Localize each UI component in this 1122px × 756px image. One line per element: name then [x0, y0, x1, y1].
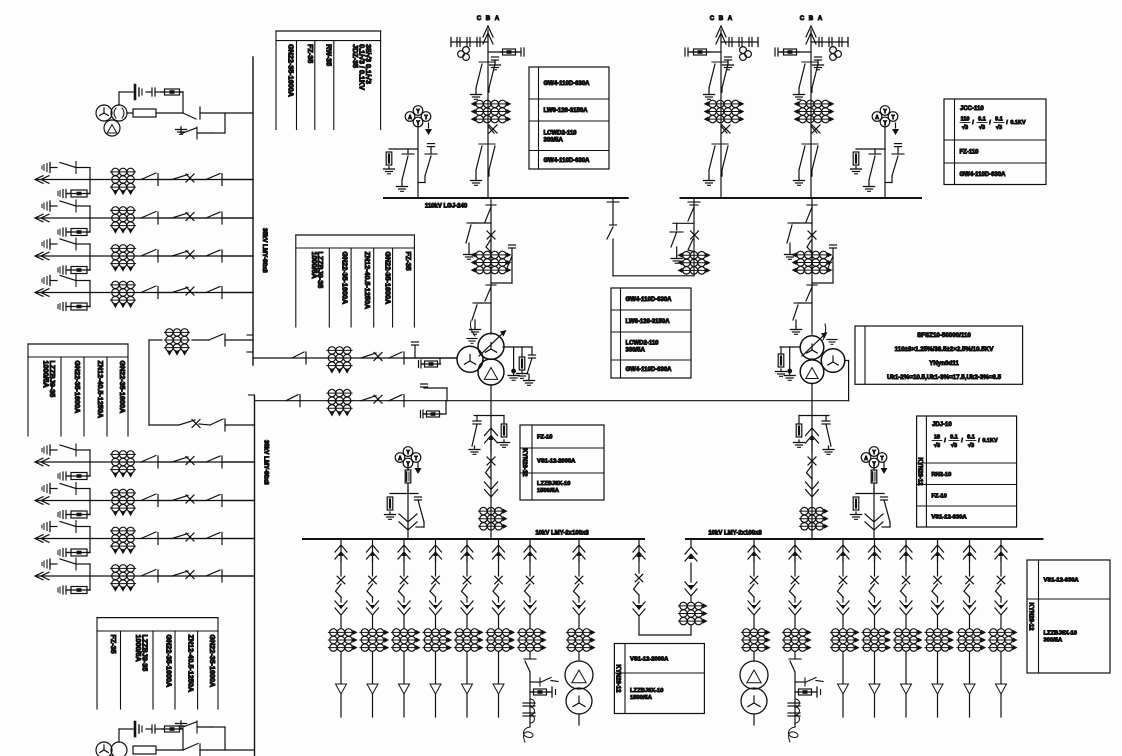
- earthing switch: [793, 305, 798, 320]
- svg-text:110kV LGJ-240: 110kV LGJ-240: [425, 204, 468, 210]
- table T3 35kV bay specs: [28, 343, 128, 345]
- svg-text:√3: √3: [934, 442, 940, 449]
- circuit breaker: [361, 396, 376, 401]
- open arrow termination: [462, 684, 473, 694]
- svg-text:JCC-110: JCC-110: [960, 106, 984, 112]
- arrows up: [964, 545, 976, 552]
- wire 10kV feeder: [403, 539, 405, 561]
- CT 3x3: [454, 631, 479, 633]
- ground: [401, 184, 403, 187]
- svg-text:GW4-110D-630A: GW4-110D-630A: [544, 158, 591, 164]
- svg-text:GW4-110D-630A: GW4-110D-630A: [626, 297, 673, 303]
- feeder arrow: [35, 176, 43, 184]
- arrester: [49, 559, 51, 569]
- solid arrow: [688, 585, 693, 591]
- solid arrow up: [577, 552, 581, 557]
- table T8 transformer T2 specs: [855, 326, 1023, 384]
- capacitor: [420, 360, 422, 368]
- switch: [486, 465, 492, 479]
- wire branch: [471, 222, 491, 224]
- wire: [794, 652, 796, 658]
- wire branch: [389, 148, 418, 150]
- svg-text:GN22-35-1600A: GN22-35-1600A: [118, 361, 127, 414]
- disconnect switch: [489, 146, 495, 170]
- arrester FZ: [501, 424, 507, 437]
- disconnect switch: [60, 484, 76, 489]
- CT 3x3: [110, 171, 135, 173]
- line arrow up: [806, 26, 816, 37]
- capacitor: [788, 712, 800, 714]
- switch: [964, 584, 970, 597]
- svg-text:FZ-35: FZ-35: [306, 44, 315, 63]
- svg-text:Uk1-2%=10.5,Uk1-3%=17.5,Uk2-3%: Uk1-2%=10.5,Uk1-3%=17.5,Uk2-3%=6.5: [887, 374, 1002, 381]
- disconnect switch: [141, 456, 156, 463]
- disconnect switch: [206, 287, 220, 293]
- disconnect switch: [60, 163, 76, 168]
- svg-text:110: 110: [961, 117, 970, 123]
- solid arrow up: [967, 552, 971, 557]
- wire: [794, 672, 796, 727]
- feeder arrow: [35, 289, 43, 297]
- disconnect switch: [476, 64, 482, 88]
- solid arrow up: [496, 552, 500, 557]
- wire branch: [89, 501, 91, 515]
- coupling capacitor: [818, 38, 820, 47]
- switch tick: [486, 284, 496, 286]
- arrows up: [685, 547, 697, 554]
- arrester FZ: [853, 152, 859, 165]
- ground: [780, 369, 782, 372]
- svg-text:LZZBJ9X-10: LZZBJ9X-10: [630, 688, 664, 694]
- breaker X: [192, 420, 200, 428]
- wire: [225, 339, 253, 341]
- wire 10kV lead: [490, 385, 492, 539]
- svg-text:GW4-110D-630A: GW4-110D-630A: [960, 172, 1007, 178]
- open arrow termination: [336, 684, 347, 694]
- solid arrow up: [402, 552, 406, 557]
- svg-text:VS1-12-2000A: VS1-12-2000A: [537, 459, 576, 465]
- breaker X: [487, 231, 495, 239]
- wire branch: [474, 415, 504, 417]
- wire branch: [118, 92, 120, 105]
- breaker X: [186, 174, 194, 182]
- svg-text:T: T: [414, 456, 417, 462]
- open arrow termination: [996, 684, 1007, 694]
- wire branch: [445, 401, 447, 414]
- OLTC arrow: [821, 332, 828, 339]
- earthing switch: [884, 500, 890, 522]
- wire 10kV feeder: [466, 539, 468, 561]
- wire branch: [89, 218, 91, 232]
- svg-text:1000/5A: 1000/5A: [42, 361, 51, 388]
- disconnect switch: [210, 419, 223, 425]
- arrows up: [335, 545, 347, 552]
- circuit breaker: [172, 288, 188, 293]
- disconnect switch: [292, 352, 304, 358]
- wire: [529, 672, 531, 727]
- CT 3x3: [110, 247, 135, 249]
- switch tick: [712, 143, 728, 145]
- junction tick: [607, 201, 619, 203]
- solid arrow down: [339, 605, 343, 610]
- table T4 35kV bay specs: [97, 617, 218, 619]
- wire branch: [414, 346, 416, 358]
- switch tick: [486, 204, 496, 206]
- svg-text:LCWD2-110: LCWD2-110: [626, 341, 660, 347]
- wire feeder: [36, 255, 253, 257]
- solid arrow up: [433, 552, 437, 557]
- arrows down: [430, 608, 442, 615]
- solid arrow up: [841, 552, 845, 557]
- wire: [612, 239, 614, 276]
- breaker X: [432, 576, 440, 584]
- breaker X: [487, 457, 495, 465]
- ground: [475, 178, 477, 181]
- ground: [389, 512, 391, 515]
- wire feeder: [36, 292, 253, 294]
- arrows down: [995, 608, 1007, 615]
- svg-text:0.1: 0.1: [995, 117, 1003, 123]
- disconnect switch: [141, 250, 156, 257]
- wire 10kV feeder: [969, 539, 971, 561]
- CT 3x3: [799, 510, 824, 512]
- wire: [832, 248, 834, 270]
- svg-text:YNyn0d11: YNyn0d11: [929, 360, 959, 367]
- disconnect switch: [790, 661, 795, 672]
- CT 3x3 bus section: [164, 331, 189, 333]
- arrows up: [367, 545, 379, 552]
- svg-text:GN22-35-1600A: GN22-35-1600A: [384, 252, 393, 305]
- svg-text:GN22-35-1600A: GN22-35-1600A: [164, 635, 173, 688]
- wire: [498, 652, 500, 683]
- switch blade: [541, 678, 551, 683]
- solid arrow up: [465, 552, 469, 557]
- wire: [578, 652, 580, 661]
- wire: [372, 694, 374, 717]
- neutral ground: [827, 339, 837, 341]
- wire: [848, 361, 850, 401]
- breaker X: [871, 576, 879, 584]
- svg-text:A: A: [728, 15, 733, 22]
- svg-text:VS1-12-630A: VS1-12-630A: [1044, 578, 1080, 584]
- svg-text:C: C: [477, 15, 482, 22]
- wire 10kV lead: [811, 384, 813, 540]
- capacitor: [788, 702, 800, 704]
- arrester: [49, 201, 51, 211]
- CT 3x3: [110, 209, 135, 211]
- switch: [828, 256, 833, 268]
- switch: [367, 584, 373, 597]
- table T11 10kV feeder: [1027, 560, 1110, 673]
- earthing switch: [527, 358, 532, 374]
- wire feeder: [36, 538, 255, 540]
- svg-text:SFSZ10-50000/110: SFSZ10-50000/110: [917, 332, 971, 339]
- svg-text:FZ-10: FZ-10: [537, 435, 552, 441]
- solid arrow down: [402, 605, 406, 610]
- arrester FZ: [519, 357, 525, 370]
- arrester: [49, 163, 51, 173]
- switch: [486, 239, 491, 252]
- capacitor: [830, 244, 837, 246]
- svg-text:LZZBJ9X-10: LZZBJ9X-10: [1044, 631, 1078, 637]
- wire 10kV feeder: [498, 539, 500, 561]
- fuse: [71, 549, 87, 556]
- svg-text:VS1-12-2000A: VS1-12-2000A: [630, 656, 669, 662]
- circuit breaker: [361, 353, 376, 358]
- breaker X: [635, 574, 643, 582]
- disconnect switch: [722, 146, 728, 170]
- breaker X: [722, 125, 730, 133]
- svg-text:√3: √3: [968, 442, 974, 449]
- ground: [474, 447, 476, 450]
- transformer T2 LV winding: [800, 360, 824, 384]
- wire 110kV bay: [720, 30, 722, 198]
- capacitor: [422, 410, 424, 418]
- switch tick: [479, 61, 495, 63]
- PT small: [463, 47, 470, 54]
- arrester FZ: [796, 424, 802, 437]
- fuse: [799, 689, 812, 695]
- wire: [182, 729, 184, 750]
- wire 10kV feeder: [905, 539, 907, 561]
- ground: [180, 721, 182, 724]
- CT 3x3: [486, 631, 511, 633]
- solid arrow down: [496, 605, 500, 610]
- line arrow up: [483, 26, 493, 37]
- OLTC diagonal: [802, 336, 823, 356]
- arrows up: [837, 545, 849, 552]
- wire: [639, 634, 691, 636]
- OLTC diagonal: [479, 334, 502, 356]
- wire branch: [673, 222, 694, 224]
- capacitor: [65, 266, 67, 274]
- svg-text:1500/5A: 1500/5A: [630, 695, 653, 701]
- solid arrow up: [904, 552, 908, 557]
- CT 3x3: [110, 567, 135, 569]
- switch tick: [75, 275, 77, 287]
- earthing switch: [402, 156, 408, 180]
- CT 3x3: [328, 631, 353, 633]
- breaker X: [902, 576, 910, 584]
- fuse: [71, 267, 87, 274]
- arrows down: [633, 609, 645, 616]
- wire: [1000, 694, 1002, 717]
- svg-text:T: T: [891, 115, 894, 121]
- CT 3x3: [478, 510, 503, 512]
- ground: [868, 184, 870, 187]
- arrows down: [900, 608, 912, 615]
- svg-text:FZ-35: FZ-35: [404, 252, 413, 271]
- arrows down: [461, 608, 473, 615]
- arrester: [49, 522, 51, 532]
- wire branch: [792, 222, 812, 224]
- solid arrow down: [465, 605, 469, 610]
- svg-text:GN22-35-1600A: GN22-35-1600A: [341, 252, 350, 305]
- open arrow termination: [399, 684, 410, 694]
- wire: [753, 652, 755, 661]
- capacitor: [65, 472, 67, 480]
- wire branch: [780, 346, 800, 348]
- open arrow termination: [869, 684, 880, 694]
- breaker X: [808, 231, 816, 239]
- arrows down: [932, 608, 944, 615]
- 110kV PT bay: [880, 106, 890, 116]
- svg-text:KYN28-12: KYN28-12: [615, 664, 621, 693]
- CT 3x3: [957, 631, 982, 633]
- disconnect switch: [60, 522, 76, 527]
- wire: [224, 113, 226, 133]
- arrows down: [789, 608, 801, 615]
- switch: [790, 584, 796, 597]
- open arrow termination: [901, 684, 912, 694]
- line arrow up: [716, 26, 726, 37]
- breaker X: [369, 576, 377, 584]
- disconnect switch: [206, 495, 220, 501]
- feeder arrow: [35, 535, 43, 543]
- svg-text:B: B: [486, 15, 491, 22]
- PT winding circle: [96, 742, 112, 756]
- wire: [842, 652, 844, 683]
- breaker X: [526, 576, 534, 584]
- arrows down: [398, 608, 410, 615]
- wire branch: [798, 302, 812, 304]
- switch tick: [712, 61, 728, 63]
- CT 4x3: [796, 254, 829, 256]
- switch tick: [75, 200, 77, 212]
- transformer T2 HV winding: [800, 336, 824, 360]
- wire branch: [530, 691, 533, 693]
- breaker X: [186, 495, 194, 503]
- fuse: [165, 89, 180, 95]
- breaker X: [463, 576, 471, 584]
- arrester: [49, 239, 51, 249]
- ground: [521, 371, 523, 374]
- solid arrow up: [528, 552, 532, 557]
- svg-text:A: A: [875, 115, 879, 121]
- disconnect switch: [183, 744, 198, 751]
- capacitor: [65, 190, 67, 198]
- wire branch: [89, 168, 91, 180]
- wire branch: [446, 388, 448, 401]
- wire branch: [451, 41, 488, 43]
- wire: [498, 694, 500, 717]
- wire branch: [89, 527, 91, 539]
- disconnect switch: [209, 334, 223, 340]
- arrows down: [869, 608, 881, 615]
- circuit breaker: [721, 126, 727, 133]
- breaker X: [374, 353, 382, 361]
- solid arrow down: [577, 605, 581, 610]
- arrow down: [399, 522, 417, 530]
- switch: [901, 584, 907, 597]
- solid arrow: [688, 554, 693, 560]
- breaker X: [997, 576, 1005, 584]
- wire: [156, 749, 183, 751]
- wire 10kV feeder: [578, 539, 580, 561]
- 10kV PT bay: [403, 447, 413, 457]
- disconnect switch: [60, 559, 76, 564]
- solid arrow up: [339, 552, 343, 557]
- svg-text:GN22-35-1600A: GN22-35-1600A: [73, 361, 82, 414]
- wire 10kV feeder: [874, 539, 876, 561]
- svg-text:0.1: 0.1: [978, 117, 986, 123]
- svg-text:KYN28-12: KYN28-12: [916, 457, 922, 486]
- svg-text:LCWD2-110: LCWD2-110: [544, 130, 578, 136]
- wire 10kV feeder: [1000, 539, 1002, 561]
- junction tick: [249, 394, 255, 396]
- CT 3x3: [110, 453, 135, 455]
- switch tick: [75, 444, 77, 456]
- wire: [200, 749, 255, 751]
- fuse: [71, 303, 87, 310]
- wire: [937, 652, 939, 683]
- wire branch: [89, 462, 91, 476]
- CT 3x3: [741, 631, 766, 633]
- ground: [798, 178, 800, 181]
- arrows down: [573, 608, 585, 615]
- disconnect switch: [206, 456, 220, 462]
- arrows down: [748, 608, 760, 615]
- wire: [873, 483, 875, 494]
- wire: [529, 652, 531, 658]
- open arrow termination: [430, 684, 441, 694]
- switch tick: [802, 61, 818, 63]
- wire: [969, 694, 971, 717]
- coupling capacitor: [728, 38, 730, 47]
- switch: [838, 584, 844, 597]
- breaker X: [934, 576, 942, 584]
- earthing switch: [472, 305, 477, 320]
- CT 3x3: [110, 284, 135, 286]
- wire: [340, 652, 342, 683]
- switch tick: [610, 224, 617, 226]
- solid arrow up: [489, 435, 494, 440]
- wire: [148, 340, 150, 425]
- capacitor: [520, 48, 522, 56]
- wire: [149, 424, 179, 426]
- ground: [475, 92, 477, 95]
- circuit breaker: [811, 126, 817, 133]
- capacitor: [65, 586, 67, 594]
- circuit breaker: [179, 420, 195, 425]
- svg-text:0.1: 0.1: [950, 435, 958, 441]
- disconnect switch: [206, 212, 220, 218]
- ground: [708, 178, 710, 181]
- wire: [1000, 652, 1002, 683]
- breaker X: [186, 213, 194, 221]
- end bar: [551, 687, 553, 697]
- wire 10kV feeder: [435, 539, 437, 561]
- svg-text:KYN28-12: KYN28-12: [521, 448, 527, 477]
- disconnect switch: [206, 533, 220, 539]
- disconnect switch: [806, 287, 812, 301]
- svg-text:FZ-35: FZ-35: [109, 635, 118, 654]
- arrester FZ: [778, 354, 784, 367]
- capacitor: [415, 496, 422, 498]
- capacitor: [822, 420, 830, 422]
- neutral ground: [467, 338, 477, 340]
- disconnect switch: [485, 207, 491, 222]
- svg-text:10kV LMY-2x100x8: 10kV LMY-2x100x8: [708, 531, 762, 537]
- CT 3x3: [925, 631, 950, 633]
- CT 3x3: [830, 631, 855, 633]
- circuit breaker: [172, 457, 188, 462]
- wire: [417, 123, 419, 198]
- arrows down: [837, 608, 849, 615]
- wire branch: [530, 681, 540, 683]
- solid arrow down: [793, 605, 797, 610]
- wire: [874, 694, 876, 717]
